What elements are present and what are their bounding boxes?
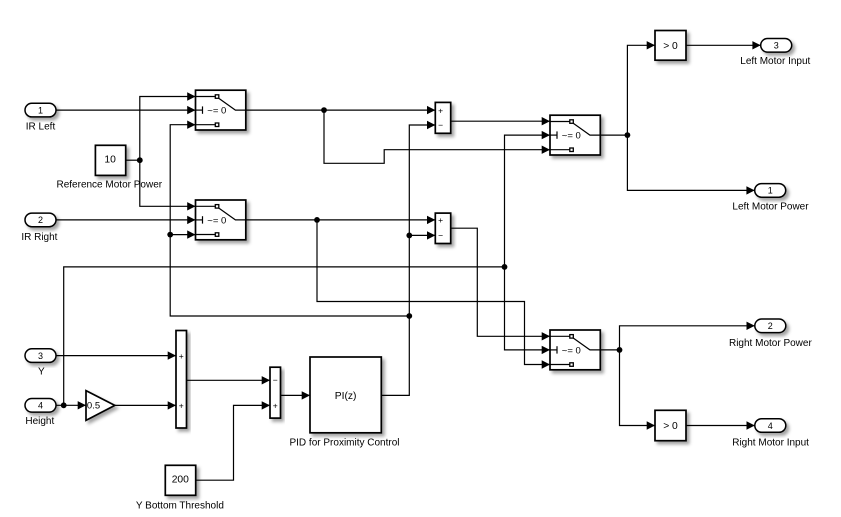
wire add out to Sum3 minus — [187, 379, 271, 381]
svg-text:Reference Motor Power: Reference Motor Power — [56, 180, 162, 191]
junction const10 — [137, 157, 143, 163]
wire Sum2 out to SW4 in1 — [451, 228, 550, 336]
junction SW4 out — [617, 347, 623, 353]
wire Y to add in1 — [56, 355, 176, 357]
svg-text:> 0: > 0 — [663, 421, 678, 432]
junction SW3 out — [625, 132, 631, 138]
junction Height — [61, 402, 67, 408]
wire PID net to Sum2 minus — [409, 234, 435, 236]
wire const 200 to Sum3 plus — [196, 405, 270, 480]
wire control to SW3 in2 — [505, 135, 551, 267]
wire IR Right to SW2 in2 — [56, 219, 196, 221]
svg-text:Y: Y — [38, 366, 45, 377]
switch SW2 left2 (~= 0) — [196, 200, 246, 240]
wire constant 10 output — [126, 159, 140, 161]
wire control to SW4 in2 — [505, 267, 551, 350]
svg-text:~= 0: ~= 0 — [562, 131, 581, 142]
svg-text:−: − — [438, 230, 443, 240]
svg-text:+: + — [179, 401, 184, 411]
wire const10 to SW2 in1 — [140, 160, 196, 206]
svg-text:3: 3 — [774, 41, 779, 51]
svg-text:+: + — [273, 401, 278, 411]
wire SW4 out — [600, 349, 619, 351]
wire PID net to SW2 in3 — [170, 234, 195, 236]
svg-text:4: 4 — [38, 401, 43, 411]
wire PID net left branch to SW1 in3 — [170, 125, 409, 316]
wire IR Left to SW1 in2 — [56, 109, 196, 111]
sum block Sum3 (- +) — [270, 367, 281, 418]
wire const10 to SW1 in1 — [140, 97, 196, 161]
port inport 1 IR Left — [25, 103, 56, 117]
wire SW2 out branch to SW4 in3 — [317, 220, 550, 365]
svg-text:10: 10 — [104, 154, 116, 165]
svg-text:1: 1 — [768, 186, 773, 196]
svg-text:−: − — [438, 120, 443, 130]
port outport 2 — [755, 319, 786, 333]
wire Height up across — [64, 267, 505, 405]
svg-text:IR Right: IR Right — [21, 232, 57, 243]
PID controller block PI(z) — [310, 357, 381, 433]
wire Sum3 out to PID in — [281, 394, 311, 396]
switch SW1 left (~= 0) — [196, 90, 246, 130]
svg-text:−: − — [273, 375, 278, 385]
wire SW1 out to Sum1 plus — [246, 109, 435, 111]
wire PID output up to Sum1 minus — [381, 125, 435, 395]
svg-text:~= 0: ~= 0 — [207, 106, 226, 117]
svg-text:PID for Proximity Control: PID for Proximity Control — [289, 437, 399, 448]
gain block 0.5 — [86, 391, 115, 421]
add block (tall ++) — [176, 331, 187, 429]
junction PID net upper — [406, 233, 412, 239]
wire Height to gain — [56, 404, 86, 406]
svg-text:2: 2 — [768, 321, 773, 331]
wire Sum1 out to SW3 in1 — [451, 120, 550, 122]
svg-text:+: + — [438, 106, 443, 116]
wire SW3 out to compare top — [627, 45, 655, 135]
port outport 4 — [755, 419, 786, 433]
svg-text:+: + — [179, 351, 184, 361]
port inport 2 IR Right — [25, 213, 56, 227]
wire SW3 out to outport 1 — [627, 135, 754, 190]
svg-text:Left Motor Input: Left Motor Input — [740, 56, 810, 67]
svg-text:+: + — [438, 215, 443, 225]
junction control line — [502, 264, 508, 270]
switch SW3 right-top (~= 0) — [550, 115, 600, 155]
svg-text:IR Left: IR Left — [26, 122, 56, 133]
wire SW1 out branch to SW3 in3 — [324, 110, 550, 163]
junction PID net left — [167, 232, 173, 238]
compare block >0 bottom — [655, 410, 686, 440]
wire SW4 out to outport 2 — [620, 326, 755, 350]
svg-text:Right Motor Power: Right Motor Power — [729, 338, 812, 349]
svg-text:~= 0: ~= 0 — [207, 215, 226, 226]
svg-text:Right Motor Input: Right Motor Input — [732, 438, 809, 449]
wire SW3 out — [600, 134, 627, 136]
svg-text:> 0: > 0 — [663, 41, 678, 52]
svg-text:200: 200 — [172, 475, 189, 486]
svg-text:1: 1 — [38, 105, 43, 115]
svg-text:~= 0: ~= 0 — [562, 345, 581, 356]
port outport 1 — [755, 184, 786, 198]
svg-text:2: 2 — [38, 215, 43, 225]
wire compare top to outport 3 — [686, 44, 761, 46]
wire gain to add in2 — [115, 404, 176, 406]
junction SW1 out — [321, 107, 327, 113]
port inport 4 Height — [25, 399, 56, 413]
wire SW4 out to compare bottom — [620, 350, 656, 426]
compare block >0 top — [655, 31, 686, 61]
sum block Sum1 (+ -) — [435, 102, 450, 133]
svg-text:Y Bottom Threshold: Y Bottom Threshold — [136, 500, 224, 511]
junction SW2 out — [314, 217, 320, 223]
port outport 3 — [761, 39, 792, 53]
constant block 200 — [165, 465, 195, 495]
wire SW2 out to Sum2 plus — [246, 219, 435, 221]
constant block 10 — [95, 145, 125, 175]
svg-text:Height: Height — [25, 416, 54, 427]
port inport 3 Y — [25, 349, 56, 363]
svg-text:3: 3 — [38, 351, 43, 361]
junction PID net lower — [406, 313, 412, 319]
switch SW4 right-bottom (~= 0) — [550, 330, 600, 370]
svg-text:PI(z): PI(z) — [335, 391, 357, 402]
svg-text:4: 4 — [768, 421, 773, 431]
svg-text:Left Motor Power: Left Motor Power — [732, 202, 809, 213]
svg-text:0.5: 0.5 — [87, 400, 100, 411]
wire compare bottom to outport 4 — [686, 425, 755, 427]
sum block Sum2 (+ -) — [435, 213, 450, 243]
